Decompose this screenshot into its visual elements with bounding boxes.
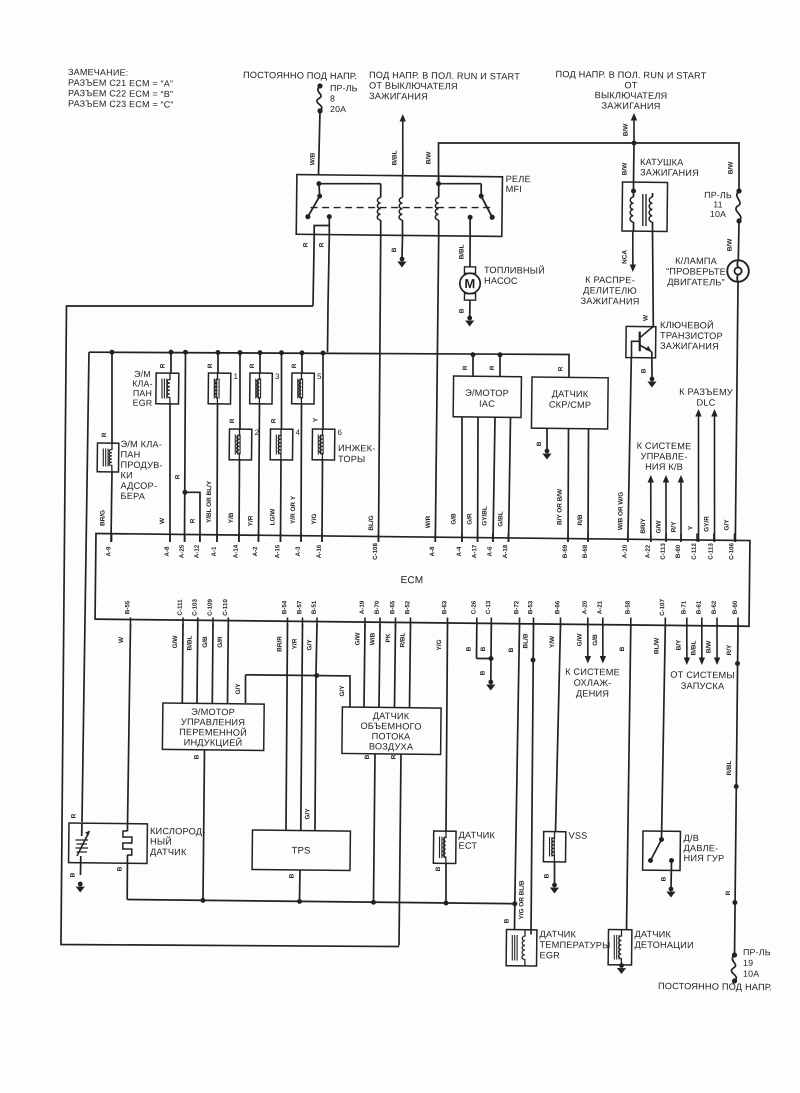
relay MFI coil 2 xyxy=(399,175,403,237)
svg-text:B-71: B-71 xyxy=(681,600,688,614)
ground (pressure switch) xyxy=(666,887,675,898)
label: knock sensor xyxy=(634,929,694,950)
motor of variable induction box xyxy=(162,703,264,751)
oxygen sensor heater xyxy=(116,827,132,900)
ground (fuel pump) xyxy=(465,316,474,327)
svg-text:G/Y: G/Y xyxy=(306,639,313,651)
svg-text:БЕРА: БЕРА xyxy=(120,491,145,501)
relay MFI right switch xyxy=(438,183,495,220)
svg-text:К СИСТЕМЕ: К СИСТЕМЕ xyxy=(637,441,692,452)
svg-text:R: R xyxy=(291,363,298,368)
svg-text:B: B xyxy=(480,646,487,651)
svg-text:6: 6 xyxy=(337,428,342,437)
svg-text:B: B xyxy=(116,866,123,871)
svg-text:A-6: A-6 xyxy=(487,546,494,557)
svg-text:G/W: G/W xyxy=(576,633,583,647)
svg-text:КИ: КИ xyxy=(120,470,132,480)
sensor oxygen box xyxy=(69,823,148,864)
svg-text:BR/Y: BR/Y xyxy=(640,518,647,534)
svg-text:R/B: R/B xyxy=(577,514,584,525)
svg-text:B: B xyxy=(391,247,398,252)
svg-text:G/B: G/B xyxy=(592,634,599,646)
label: purge solenoid valve xyxy=(120,439,163,501)
wires C-26 C-13 to ground xyxy=(465,624,494,681)
fuse F19 (ПР-ЛЬ 19 10A) xyxy=(731,947,770,984)
svg-text:B/W: B/W xyxy=(726,238,733,251)
svg-text:ТОПЛИВНЫЙ: ТОПЛИВНЫЙ xyxy=(484,264,545,276)
injector 4 xyxy=(269,350,301,542)
label: IAC motor xyxy=(465,388,509,409)
svg-text:Y/G: Y/G xyxy=(436,639,443,650)
svg-text:B-53: B-53 xyxy=(527,600,534,614)
ignition coil core xyxy=(642,194,646,226)
sensor EGR temperature box xyxy=(506,929,537,966)
transistor emitter ground wire xyxy=(640,351,652,378)
ground (VSS) xyxy=(550,883,559,894)
svg-text:B/BL: B/BL xyxy=(458,244,465,259)
svg-text:A-3: A-3 xyxy=(295,546,302,557)
svg-text:4: 4 xyxy=(295,428,300,437)
svg-text:M: M xyxy=(464,276,475,291)
svg-text:B-65: B-65 xyxy=(389,600,396,614)
wire B/W arrow from ignition switch xyxy=(622,113,637,143)
svg-text:B/W: B/W xyxy=(622,123,629,136)
wires to MAF sensor xyxy=(354,624,411,708)
svg-text:ДАВЛЕ-: ДАВЛЕ- xyxy=(683,843,718,853)
label: oxygen sensor xyxy=(150,826,206,857)
lamp check-engine xyxy=(727,260,749,282)
wire to DLC 1 xyxy=(687,409,701,542)
wire B/W fuse to lamp xyxy=(726,221,739,260)
injector 3 xyxy=(247,350,280,542)
svg-text:G/Y: G/Y xyxy=(304,808,311,820)
svg-text:R/BL: R/BL xyxy=(726,760,733,775)
svg-text:B/W: B/W xyxy=(705,640,712,653)
svg-text:B-54: B-54 xyxy=(281,600,288,614)
svg-text:A-4: A-4 xyxy=(456,546,463,557)
label: to DLC connector xyxy=(679,387,733,408)
svg-text:A-8: A-8 xyxy=(429,546,436,557)
svg-text:КЛЮЧЕВОЙ: КЛЮЧЕВОЙ xyxy=(660,319,714,331)
svg-text:К/ЛАМПА: К/ЛАМПА xyxy=(675,256,718,266)
label: check engine lamp xyxy=(666,256,726,288)
svg-text:10A: 10A xyxy=(710,209,726,219)
wire B-58 to knock sensor xyxy=(616,624,631,929)
wire to DLC 2 xyxy=(703,409,717,542)
svg-text:ПОТОКА: ПОТОКА xyxy=(372,731,412,741)
wire B/W horizontal feed xyxy=(425,138,739,190)
injector 1 xyxy=(205,350,239,542)
svg-text:B: B xyxy=(640,368,647,373)
ignition coil primary winding xyxy=(630,182,636,232)
svg-text:РЕЛЕ: РЕЛЕ xyxy=(506,174,531,184)
svg-text:КИСЛОРОД-: КИСЛОРОД- xyxy=(150,826,206,837)
relay MFI coil 1 xyxy=(318,183,381,236)
svg-text:A-1: A-1 xyxy=(211,546,218,557)
ground (key transistor) xyxy=(647,377,656,388)
TPS ground wire B xyxy=(288,870,300,900)
svg-text:VSS: VSS xyxy=(568,831,587,841)
svg-text:B/W: B/W xyxy=(621,162,628,175)
svg-text:R: R xyxy=(557,366,564,371)
sensor knock box xyxy=(608,929,632,965)
svg-text:B-69: B-69 xyxy=(562,544,569,558)
svg-text:W/B: W/B xyxy=(309,152,316,165)
svg-text:Э/М КЛА-: Э/М КЛА- xyxy=(120,439,162,449)
svg-text:Y/BL OR BL/Y: Y/BL OR BL/Y xyxy=(206,480,213,523)
ground (C-26/C-13) xyxy=(486,680,495,691)
svg-text:РАЗЪЕМ C23 ECM = “C”: РАЗЪЕМ C23 ECM = “C” xyxy=(68,98,174,109)
wire to A/C 3 xyxy=(670,475,684,542)
svg-text:B-57: B-57 xyxy=(296,600,303,614)
svg-text:ОТ СИСТЕМЫ: ОТ СИСТЕМЫ xyxy=(670,670,735,681)
svg-text:ПЕРЕМЕННОЙ: ПЕРЕМЕННОЙ xyxy=(179,726,247,738)
label: ignition RUN/START source (left) xyxy=(369,70,521,103)
wire G/Y branch from B-51 xyxy=(233,624,350,831)
svg-text:R/Y: R/Y xyxy=(726,644,733,655)
svg-text:A-12: A-12 xyxy=(194,544,201,558)
svg-text:A-20: A-20 xyxy=(582,600,589,614)
svg-text:К РАСПРЕ-: К РАСПРЕ- xyxy=(585,275,635,286)
svg-text:РАЗЪЕМ C21 ECM = “A”: РАЗЪЕМ C21 ECM = “A” xyxy=(68,77,173,88)
svg-text:EGR: EGR xyxy=(133,398,153,408)
TPS box xyxy=(252,830,350,871)
oxygen sensor element xyxy=(75,823,89,875)
svg-text:ОХЛАЖ-: ОХЛАЖ- xyxy=(574,678,612,688)
svg-text:R: R xyxy=(302,242,309,247)
wire R to ECM A-25 with jog to A-12 xyxy=(174,350,202,543)
svg-text:W/B: W/B xyxy=(369,632,376,645)
svg-text:G/W: G/W xyxy=(172,635,179,649)
svg-text:A-14: A-14 xyxy=(233,544,240,558)
label: volume air flow sensor xyxy=(360,711,422,752)
svg-text:R: R xyxy=(189,518,196,523)
svg-text:C-109: C-109 xyxy=(207,598,214,615)
wire R/Y B-60 down to fuse 19 xyxy=(723,624,741,955)
svg-text:НЫЙ: НЫЙ xyxy=(150,835,172,846)
label: ignition key transistor xyxy=(660,319,723,351)
svg-text:ТОРЫ: ТОРЫ xyxy=(338,454,366,464)
svg-text:Y: Y xyxy=(312,417,319,422)
svg-text:ИНДУКЦИЕЙ: ИНДУКЦИЕЙ xyxy=(184,736,243,748)
wire Y/G B-63 to ECT sensor xyxy=(434,624,448,831)
svg-text:C-13: C-13 xyxy=(485,600,492,614)
svg-text:A-16: A-16 xyxy=(316,544,323,558)
svg-text:B: B xyxy=(435,866,442,871)
svg-text:ЕСТ: ЕСТ xyxy=(458,841,477,851)
svg-text:3: 3 xyxy=(275,372,280,381)
svg-text:A-22: A-22 xyxy=(645,544,652,558)
left loop wire R (relay - left edge - bottom - MAF R) xyxy=(60,303,406,948)
sensor CKP/CMP box xyxy=(531,366,608,429)
relay MFI left switch xyxy=(305,181,332,219)
svg-text:R: R xyxy=(159,363,166,368)
svg-text:ТЕМПЕРАТУРЫ: ТЕМПЕРАТУРЫ xyxy=(539,940,610,951)
svg-text:W/B OR W/G: W/B OR W/G xyxy=(617,492,624,530)
label: CKP/CMP sensor xyxy=(549,389,592,410)
wires to induction motor xyxy=(171,624,228,704)
relay MFI dashed bar xyxy=(311,206,491,210)
svg-text:ЗАЖИГАНИЯ: ЗАЖИГАНИЯ xyxy=(602,101,661,112)
label: ECT sensor xyxy=(458,830,495,851)
svg-text:ЗАПУСКА: ЗАПУСКА xyxy=(681,681,725,691)
svg-text:ДАТЧИК: ДАТЧИК xyxy=(552,389,589,399)
svg-text:10A: 10A xyxy=(743,969,759,979)
svg-text:УПРАВЛЕ-: УПРАВЛЕ- xyxy=(641,451,688,462)
svg-text:W: W xyxy=(159,517,166,524)
ECM top pin stubs and numbers xyxy=(105,527,735,564)
svg-text:ОТ ВЫКЛЮЧАТЕЛЯ: ОТ ВЫКЛЮЧАТЕЛЯ xyxy=(369,80,458,91)
svg-text:B-60: B-60 xyxy=(732,600,739,614)
svg-text:GY/BL: GY/BL xyxy=(481,506,488,526)
svg-text:G/R: G/R xyxy=(466,513,473,525)
relay MFI output jog (R wires) xyxy=(314,217,329,237)
oxygen sensor element ground xyxy=(69,872,85,892)
svg-text:ДЕНИЯ: ДЕНИЯ xyxy=(576,688,609,698)
svg-text:B: B xyxy=(660,876,667,881)
svg-text:“ПРОВЕРЬТЕ: “ПРОВЕРЬТЕ xyxy=(666,266,726,277)
svg-text:К РАЗЪЕМУ: К РАЗЪЕМУ xyxy=(679,387,733,398)
svg-text:C-108: C-108 xyxy=(372,542,379,559)
svg-text:BL/B: BL/B xyxy=(522,633,529,648)
motor IAC box xyxy=(453,352,522,418)
label: EGR temperature sensor xyxy=(539,929,610,961)
injector 2 xyxy=(228,350,261,542)
fuse F8 (ПР-ЛЬ 8 20A) xyxy=(317,83,358,114)
wire B-53 to EGR temp sensor (Y/G OR BL/B) xyxy=(518,624,536,934)
wire to A/C 2 xyxy=(655,475,669,542)
svg-text:R/Y: R/Y xyxy=(670,521,677,532)
svg-text:BR/R: BR/R xyxy=(276,636,283,652)
ground (CKP/CMP) xyxy=(542,449,551,460)
svg-text:G/Y: G/Y xyxy=(723,519,730,531)
svg-text:B/Y OR B/W: B/Y OR B/W xyxy=(556,488,563,525)
svg-text:ДЕЛИТЕЛЮ: ДЕЛИТЕЛЮ xyxy=(583,285,637,296)
solenoid EGR valve xyxy=(154,350,179,543)
svg-text:ДВИГАТЕЛЬ”: ДВИГАТЕЛЬ” xyxy=(667,277,725,288)
svg-text:TPS: TPS xyxy=(291,845,310,856)
svg-text:A-9: A-9 xyxy=(105,546,112,557)
svg-text:Y: Y xyxy=(687,525,694,530)
wire G/Y lamp to ECM C-106 xyxy=(723,282,738,542)
svg-text:BL/G: BL/G xyxy=(368,515,375,530)
svg-text:B-52: B-52 xyxy=(404,600,411,614)
wires BR/R and Y/R to TPS xyxy=(274,624,303,830)
left branch wire of bus down to oxygen sensor xyxy=(70,352,89,822)
ignition coil box xyxy=(622,182,668,232)
svg-text:R/BL: R/BL xyxy=(399,632,406,647)
wire B-72 to EGR temp sensor (B) xyxy=(503,624,519,929)
svg-text:УПРАВЛЕНИЯ: УПРАВЛЕНИЯ xyxy=(181,717,245,728)
MAF ground wire B xyxy=(362,754,375,900)
svg-text:A-25: A-25 xyxy=(179,544,186,558)
svg-text:A-8: A-8 xyxy=(164,546,171,557)
svg-text:АДСОР-: АДСОР- xyxy=(120,481,157,491)
wire to A/C 1 xyxy=(640,475,654,542)
svg-text:B: B xyxy=(503,918,510,923)
wire W/R relay coil3 to ECM A-8 xyxy=(425,236,439,542)
svg-text:ДЕТОНАЦИИ: ДЕТОНАЦИИ xyxy=(634,940,693,951)
svg-text:R: R xyxy=(229,418,236,423)
svg-text:Y/R: Y/R xyxy=(247,515,254,526)
label: fuel pump xyxy=(484,264,545,286)
wire transistor base to ECM A-10 xyxy=(617,358,631,542)
fuse F11 (ПР-ЛЬ 11 10A) xyxy=(704,188,742,224)
label: ignition RUN/START source (right) xyxy=(555,69,707,112)
svg-text:G/R: G/R xyxy=(217,636,224,648)
wire B/W from junction to ignition coil xyxy=(621,143,634,182)
label: VSS xyxy=(568,831,587,841)
svg-text:КАТУШКА: КАТУШКА xyxy=(640,157,684,167)
svg-text:ПРОДУВ-: ПРОДУВ- xyxy=(120,460,162,470)
svg-text:Y/G OR BL/B: Y/G OR BL/B xyxy=(518,880,525,920)
svg-text:B: B xyxy=(69,872,76,877)
svg-text:C-113: C-113 xyxy=(660,543,667,560)
svg-text:ДАТЧИК: ДАТЧИК xyxy=(373,711,410,721)
svg-text:Э/МОТОР: Э/МОТОР xyxy=(465,388,509,398)
transistor Q1 symbol xyxy=(631,326,653,358)
svg-text:C-112: C-112 xyxy=(691,543,698,560)
label: constant battery voltage (bottom) xyxy=(658,981,772,992)
VSS ground wire xyxy=(543,862,554,884)
CKP/CMP ground wire xyxy=(536,429,547,450)
svg-text:B: B xyxy=(465,646,472,651)
label: from starting system xyxy=(670,670,735,692)
svg-text:A-15: A-15 xyxy=(274,544,281,558)
svg-text:B-70: B-70 xyxy=(374,600,381,614)
svg-text:R: R xyxy=(249,363,256,368)
svg-text:DLC: DLC xyxy=(697,397,716,407)
ground (relay coil) xyxy=(397,257,406,268)
ECM box xyxy=(95,533,750,626)
svg-text:G/B: G/B xyxy=(202,636,209,648)
label: constant battery voltage (top) xyxy=(243,70,357,81)
induction motor ground wire B xyxy=(192,750,205,900)
svg-text:A-17: A-17 xyxy=(471,544,478,558)
svg-text:A-10: A-10 xyxy=(622,544,629,558)
svg-text:B/BL: B/BL xyxy=(690,640,697,655)
relay MFI box xyxy=(296,172,531,237)
wire B/BL arrow from ignition switch to relay xyxy=(391,114,406,175)
key transistor box xyxy=(626,326,656,357)
svg-text:B: B xyxy=(508,647,515,652)
svg-text:ДАТЧИК: ДАТЧИК xyxy=(458,830,495,840)
svg-text:НАСОС: НАСОС xyxy=(484,276,518,286)
svg-text:B: B xyxy=(458,308,465,313)
svg-text:A-18: A-18 xyxy=(502,544,509,558)
svg-text:B/W: B/W xyxy=(727,161,734,174)
svg-text:R: R xyxy=(270,418,277,423)
svg-text:G/W: G/W xyxy=(655,520,662,534)
svg-text:C-113: C-113 xyxy=(708,543,715,560)
svg-text:R: R xyxy=(318,242,325,247)
svg-text:НИЯ ГУР: НИЯ ГУР xyxy=(683,853,724,863)
power bus from relay (horizontal) xyxy=(89,349,569,377)
svg-text:MFI: MFI xyxy=(506,184,523,194)
svg-text:ЗАЖИГАНИЯ: ЗАЖИГАНИЯ xyxy=(640,167,699,178)
wire NCA to distributor xyxy=(621,231,636,272)
wire BL/G relay coil1 to ECM C-108 xyxy=(368,236,382,542)
svg-text:R: R xyxy=(462,365,469,370)
svg-text:NCA: NCA xyxy=(621,250,628,264)
svg-text:G/W: G/W xyxy=(354,632,361,646)
junction dots on ground bus xyxy=(200,898,517,906)
svg-text:W/R: W/R xyxy=(425,515,432,528)
svg-text:B-55: B-55 xyxy=(124,600,131,614)
svg-text:B-66: B-66 xyxy=(554,600,561,614)
label: to ignition distributor xyxy=(581,275,640,307)
svg-text:B/BL: B/BL xyxy=(391,150,398,165)
injector 5 xyxy=(289,350,322,542)
svg-text:ДАТЧИК: ДАТЧИК xyxy=(634,929,671,939)
svg-text:ВЫКЛЮЧАТЕЛЯ: ВЫКЛЮЧАТЕЛЯ xyxy=(595,90,668,101)
svg-text:G/Y: G/Y xyxy=(339,685,346,697)
svg-text:G/Y: G/Y xyxy=(235,683,242,695)
svg-text:B: B xyxy=(364,754,371,759)
svg-text:G/BL: G/BL xyxy=(497,511,504,526)
note: connector legend xyxy=(68,67,174,110)
svg-text:W: W xyxy=(642,314,649,321)
svg-text:C-111: C-111 xyxy=(177,599,184,616)
svg-text:R: R xyxy=(207,363,214,368)
svg-text:ECM: ECM xyxy=(400,575,423,586)
label: injectors xyxy=(338,443,376,464)
wires IAC to ECM xyxy=(450,417,510,543)
sensor ECT box xyxy=(433,831,456,864)
relay MFI coil 3 xyxy=(435,175,441,237)
svg-text:B: B xyxy=(193,754,200,759)
svg-text:R: R xyxy=(101,432,108,437)
wire BL/W C-107 to pressure switch xyxy=(651,624,665,839)
svg-text:IAC: IAC xyxy=(479,399,495,409)
svg-text:EGR: EGR xyxy=(539,950,560,960)
svg-text:ЗАЖИГАНИЯ: ЗАЖИГАНИЯ xyxy=(581,296,640,307)
svg-text:ПР-ЛЬ: ПР-ЛЬ xyxy=(330,83,358,93)
wire R second (relay to solenoid bus) xyxy=(317,236,329,352)
svg-text:ОТ: ОТ xyxy=(624,80,637,90)
fuel pump motor M xyxy=(460,267,481,300)
svg-text:B: B xyxy=(479,670,486,675)
fuel pump ground wire xyxy=(458,300,470,317)
svg-text:19: 19 xyxy=(743,958,753,968)
svg-text:B: B xyxy=(619,646,626,651)
svg-text:ЗАМЕЧАНИЕ:: ЗАМЕЧАНИЕ: xyxy=(68,67,129,78)
svg-text:B: B xyxy=(543,873,550,878)
svg-text:B-68: B-68 xyxy=(582,544,589,558)
svg-text:ПОСТОЯННО ПОД НАПР.: ПОСТОЯННО ПОД НАПР. xyxy=(243,70,357,81)
svg-text:R: R xyxy=(174,474,181,479)
svg-text:C-26: C-26 xyxy=(471,600,478,614)
MAF wire R to bottom loop xyxy=(388,754,401,945)
svg-text:B-51: B-51 xyxy=(311,600,318,614)
svg-text:НИЯ К/В: НИЯ К/В xyxy=(645,462,683,472)
svg-text:C-106: C-106 xyxy=(728,542,735,559)
label: variable induction control motor xyxy=(179,707,247,748)
svg-text:СКР/СМР: СКР/СМР xyxy=(549,400,591,410)
label: power steering pressure switch xyxy=(683,833,724,863)
svg-text:ОБЪЕМНОГО: ОБЪЕМНОГО xyxy=(360,721,421,732)
relay ground wire B xyxy=(391,236,403,258)
svg-text:ПАН: ПАН xyxy=(120,449,140,459)
svg-text:BR/G: BR/G xyxy=(99,510,106,526)
svg-text:ПОД НАПР. В ПОЛ. RUN И START: ПОД НАПР. В ПОЛ. RUN И START xyxy=(555,69,706,81)
injector 6 xyxy=(311,350,344,542)
svg-text:A-21: A-21 xyxy=(597,600,604,614)
label: to A/C control system xyxy=(636,441,691,472)
svg-text:A-2: A-2 xyxy=(252,546,259,557)
label: ECM xyxy=(400,575,423,586)
sensor MAF box xyxy=(342,707,441,755)
